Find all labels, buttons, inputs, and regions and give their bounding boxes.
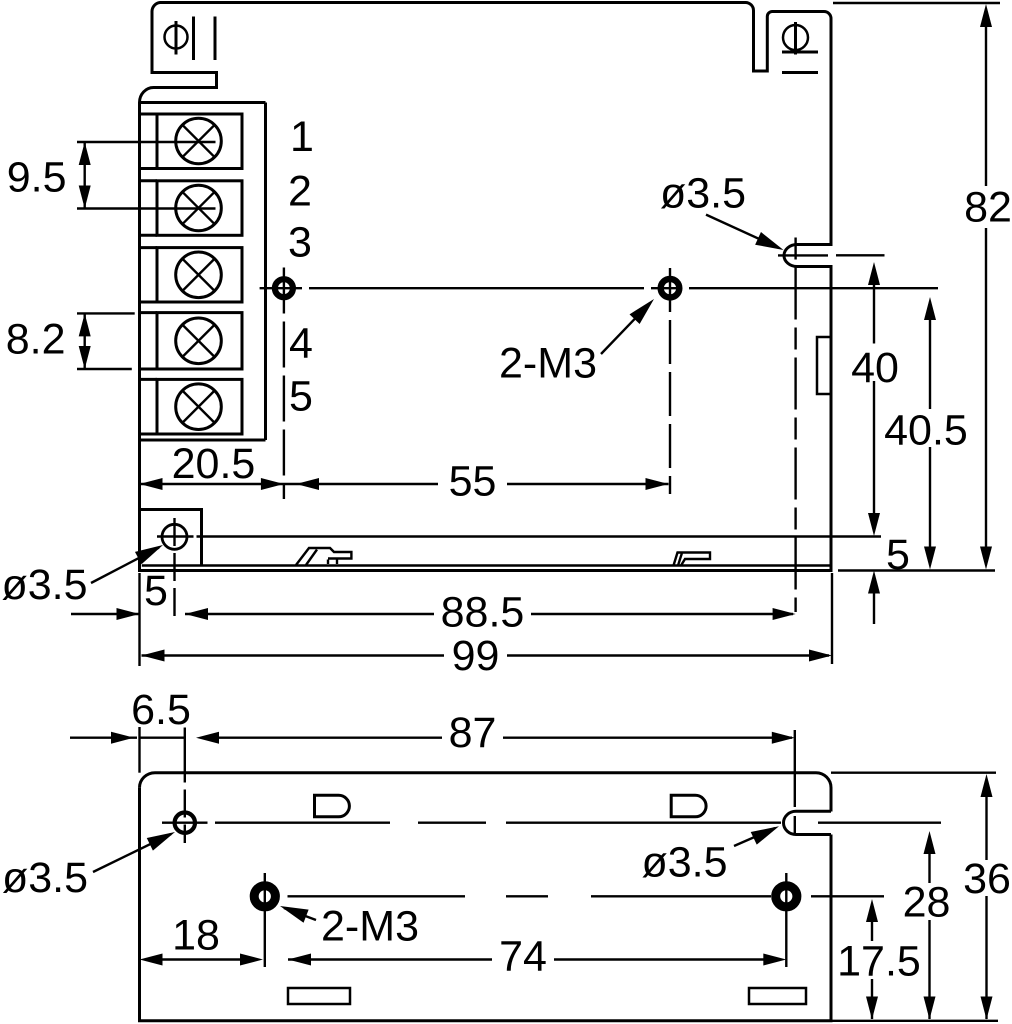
svg-text:40.5: 40.5 <box>884 406 968 454</box>
dia 3.5 leader bottom view left <box>93 834 171 872</box>
svg-text:82: 82 <box>964 183 1012 231</box>
right tab earth symbol stem <box>794 22 797 55</box>
svg-text:20.5: 20.5 <box>172 440 256 488</box>
svg-text:ø3.5: ø3.5 <box>2 854 88 902</box>
svg-text:9.5: 9.5 <box>7 154 67 202</box>
M3 hole vertical centerline <box>669 268 671 494</box>
chassis outline bottom view upper <box>140 773 832 812</box>
dim 9.5 line <box>83 142 85 209</box>
right slot bottom view <box>784 811 832 834</box>
svg-text:5: 5 <box>144 567 168 615</box>
terminal cell 2 <box>157 181 242 236</box>
svg-text:55: 55 <box>449 457 497 505</box>
top edge extension for 82 <box>833 2 1000 4</box>
terminal block outer box right <box>264 103 267 441</box>
terminal screw 3 <box>176 252 222 298</box>
right tab earth symbol circle <box>783 25 808 50</box>
svg-text:3: 3 <box>288 218 312 266</box>
lip hole vertical centerline <box>173 518 175 622</box>
connector rect on right edge <box>817 337 831 394</box>
terminal screw 5 <box>176 384 222 430</box>
screw1 centerline / 9.5 ext top <box>77 141 216 143</box>
svg-text:2-M3: 2-M3 <box>321 902 419 950</box>
svg-text:5: 5 <box>289 372 313 420</box>
dim 17.5 line <box>871 920 873 1019</box>
2-M3 leader bottom view <box>284 908 316 920</box>
base inner line <box>142 564 831 566</box>
svg-text:ø3.5: ø3.5 <box>660 169 746 217</box>
clip detail left inner <box>306 550 337 566</box>
dashed centerline M3 holes <box>288 895 885 897</box>
clip detail right <box>674 553 711 566</box>
cell edge stubs <box>140 114 158 434</box>
screw2 centerline / 9.5 ext bottom <box>77 207 216 209</box>
dia 3.5 leader <box>706 215 779 248</box>
left tab earth symbol circle <box>165 26 188 49</box>
svg-text:6.5: 6.5 <box>131 686 191 734</box>
svg-text:18: 18 <box>172 911 220 959</box>
svg-text:ø3.5: ø3.5 <box>641 838 727 886</box>
terminal screw 4 <box>176 318 222 364</box>
bottom right slot vertical centerline <box>794 730 796 833</box>
dim 99 line <box>142 654 830 656</box>
svg-text:99: 99 <box>452 632 500 680</box>
dim 82 line <box>985 26 987 548</box>
bottom edge extension bottom view <box>831 1020 998 1022</box>
svg-text:8.2: 8.2 <box>6 316 66 364</box>
svg-text:28: 28 <box>903 878 951 926</box>
terminal cell 4 <box>157 313 242 369</box>
bottom left hole crosshair <box>162 822 208 824</box>
main horizontal centerline <box>260 287 938 289</box>
2-M3 leader <box>601 303 650 354</box>
svg-text:36: 36 <box>963 855 1011 903</box>
chassis outline bottom view lower <box>140 788 832 1021</box>
M3 hole ring top view <box>661 279 680 298</box>
dim 36 line <box>985 795 987 1019</box>
bottom edge extension right <box>838 569 995 571</box>
top edge extension bottom view <box>831 772 996 774</box>
dia 3.5 leader bottom view right <box>734 828 775 846</box>
chassis outline top view <box>140 3 832 571</box>
terminal screw 2 <box>176 185 222 231</box>
slot vertical centerline <box>794 238 796 613</box>
D vent slot right <box>671 795 706 817</box>
bottom M3 hole left <box>254 886 275 907</box>
bottom left mounting hole <box>175 813 195 833</box>
svg-text:2-M3: 2-M3 <box>499 339 597 387</box>
dim 20.5 / 55 chain line <box>140 483 669 485</box>
bottom M3 right vertical centerline <box>785 873 787 967</box>
svg-text:ø3.5: ø3.5 <box>1 561 87 609</box>
left tab bar 2 <box>214 17 217 61</box>
D vent slot left <box>315 795 350 817</box>
flange top line <box>157 535 881 537</box>
terminal block outer box bottom <box>140 439 266 442</box>
terminal block outer box top <box>140 101 266 104</box>
svg-text:1: 1 <box>290 113 314 161</box>
mounting lip box <box>140 510 202 566</box>
svg-text:2: 2 <box>288 168 312 216</box>
bottom M3 left vertical centerline <box>264 873 266 967</box>
dim 8.2 line <box>83 313 85 369</box>
dim 5 right arrows <box>873 590 875 624</box>
svg-text:88.5: 88.5 <box>441 588 525 636</box>
left edge extension down <box>138 573 140 666</box>
left tab earth symbol stem <box>175 21 178 55</box>
right edge extension down <box>831 573 833 664</box>
left mounting hole ring <box>275 279 293 297</box>
lip mounting hole <box>162 524 187 549</box>
dim 40 line <box>873 284 875 514</box>
dim 40.5 line <box>929 319 931 548</box>
8.2 ext top <box>77 312 135 314</box>
left edge extension up <box>138 727 140 773</box>
bottom vent rect left <box>288 988 350 1004</box>
left tab bar 1 <box>192 17 195 61</box>
dim 6.5 / 87 chain line <box>70 737 792 739</box>
svg-text:87: 87 <box>449 709 497 757</box>
svg-text:40: 40 <box>851 344 899 392</box>
bottom M3 hole right <box>776 886 797 907</box>
terminal cell 1 <box>157 114 242 169</box>
right tab bar 1 <box>782 51 818 54</box>
clip detail left <box>296 548 351 565</box>
dashed centerline upper holes <box>215 822 941 824</box>
svg-text:74: 74 <box>499 932 547 980</box>
left hole vertical centerline <box>283 268 285 500</box>
terminal cell 3 <box>157 248 242 302</box>
slot crosshair horizontal <box>778 254 828 256</box>
8.2 ext bottom <box>77 368 132 370</box>
right tab bar 2 <box>782 71 818 74</box>
svg-text:4: 4 <box>289 319 313 367</box>
dim 18 / 74 chain line <box>160 958 764 960</box>
dim 88.5 line <box>185 613 793 615</box>
bottom left hole vertical centerline <box>184 728 186 844</box>
slot ext line for dim 40 <box>836 254 885 256</box>
terminal screw 1 <box>176 118 222 164</box>
bottom vent rect right <box>749 988 806 1004</box>
dia 3.5 leader bottom left <box>91 548 159 584</box>
dim 28 line <box>928 852 930 1019</box>
dim 5 left line <box>71 613 140 615</box>
terminal cell 5 <box>157 379 242 434</box>
svg-text:17.5: 17.5 <box>837 937 921 985</box>
